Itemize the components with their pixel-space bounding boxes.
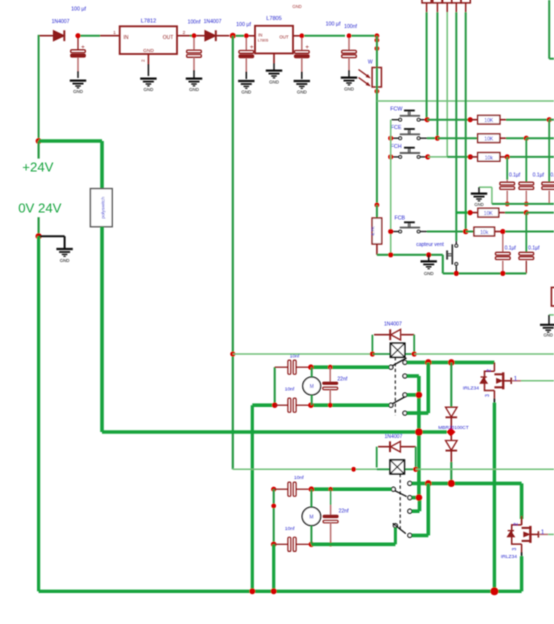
resistor R3 10k xyxy=(470,153,505,162)
node +12V junction xyxy=(230,22,252,39)
label +24V xyxy=(22,159,53,174)
svg-text:IN: IN xyxy=(124,35,129,41)
wire 0V rail down xyxy=(37,236,40,591)
svg-text:10k: 10k xyxy=(485,155,494,161)
wire FCH row xyxy=(428,156,471,158)
node K1 aux column xyxy=(416,392,423,399)
wire K2 feed to edge xyxy=(416,468,554,470)
svg-text:0.1µf: 0.1µf xyxy=(550,173,554,179)
ground GND4 xyxy=(238,81,254,95)
diode D6 1N4007 flyback xyxy=(377,434,416,468)
wire K1 coil feed xyxy=(233,353,373,355)
transistor Q2 IRLZ34 xyxy=(501,516,548,560)
node K2 aux xyxy=(416,494,423,501)
wire motor2 left branch xyxy=(271,489,276,544)
wire +24V stub xyxy=(37,141,39,159)
node K1 feed tap xyxy=(230,351,235,356)
node C7 bottom xyxy=(524,202,529,207)
svg-text:100nf: 100nf xyxy=(344,24,357,30)
capacitor C13 22nf xyxy=(323,365,348,408)
motor M2 xyxy=(302,489,320,544)
svg-text:22nf: 22nf xyxy=(339,509,349,515)
svg-text:+24V: +24V xyxy=(22,159,53,174)
resistor R1 10K xyxy=(470,115,506,124)
svg-text:2: 2 xyxy=(140,59,145,62)
capacitor C3 100uf xyxy=(239,38,254,79)
capacitor C4 100uf xyxy=(294,38,309,79)
wire AC input corner xyxy=(39,35,54,141)
regulator U1 L7812 xyxy=(120,19,177,55)
svg-text:IRLZ34: IRLZ34 xyxy=(463,386,479,392)
svg-text:GND: GND xyxy=(297,90,307,95)
svg-text:L7805: L7805 xyxy=(266,16,282,22)
svg-text:IN: IN xyxy=(258,32,262,37)
wire R1 to edge xyxy=(506,117,554,122)
wire K1 throw A row xyxy=(407,361,495,365)
ground GND1 xyxy=(70,81,86,95)
capacitor C14 10nf xyxy=(271,475,309,496)
wire Q2 drain column xyxy=(520,483,524,519)
ground GND8 xyxy=(421,255,437,276)
node junctions at W column xyxy=(375,33,380,51)
svg-text:2: 2 xyxy=(486,369,492,372)
node K1 coil right xyxy=(412,351,417,356)
node above R6 xyxy=(375,203,380,208)
node junction at C2 xyxy=(192,33,197,38)
wire J1 pin2 column xyxy=(436,12,438,138)
svg-text:GND: GND xyxy=(474,202,483,207)
node throw A col1 xyxy=(425,359,432,366)
svg-text:1N4007: 1N4007 xyxy=(384,434,402,440)
node R5 right xyxy=(500,229,505,234)
wire MBR bottom xyxy=(450,462,452,483)
wire motor1 row A xyxy=(311,365,389,369)
ground GND5 xyxy=(266,71,282,85)
relay K2 contacts xyxy=(391,474,411,538)
svg-text:L7805: L7805 xyxy=(258,39,269,43)
svg-text:FCE: FCE xyxy=(391,125,402,131)
wire bottom 0V rail xyxy=(39,590,522,593)
svg-text:10nf: 10nf xyxy=(285,526,295,532)
svg-text:+: + xyxy=(305,44,309,51)
wire K2 coil pins xyxy=(377,468,416,470)
connector fragment right edge xyxy=(551,287,554,306)
node rail relay column xyxy=(415,428,423,436)
wire D1 to U1 xyxy=(80,30,119,36)
svg-text:10K: 10K xyxy=(484,211,494,217)
svg-text:FCB: FCB xyxy=(394,216,405,222)
wire cap bank rail xyxy=(492,203,554,205)
wire K1 coil pins xyxy=(372,353,414,355)
svg-text:M: M xyxy=(309,515,313,521)
svg-text:GND: GND xyxy=(73,89,83,94)
svg-text:IRLZ34: IRLZ34 xyxy=(501,554,517,560)
diode D3 1N4007 flyback xyxy=(372,322,414,352)
capacitor C10 0.1uf xyxy=(519,213,540,274)
wire to U2 xyxy=(236,33,255,38)
svg-text:0.1µf: 0.1µf xyxy=(528,246,540,252)
ground GND9 xyxy=(471,187,492,207)
svg-text:polyswitch: polyswitch xyxy=(101,196,107,218)
capacitor C11 10nf xyxy=(275,353,309,374)
node motor1 B junction xyxy=(308,402,314,408)
wire W column upper xyxy=(376,36,378,68)
svg-text:10k: 10k xyxy=(480,230,489,236)
node K2 MBR bottom xyxy=(448,480,455,487)
wire U2 GND pin xyxy=(273,53,275,70)
ground GND2 xyxy=(140,79,156,93)
node rail FC column xyxy=(388,252,393,257)
switch FCW xyxy=(390,107,427,121)
svg-text:GND: GND xyxy=(424,271,434,276)
resistor R5 10k xyxy=(466,227,501,236)
label 0V 24V xyxy=(18,200,61,215)
svg-text:FCW: FCW xyxy=(390,107,402,113)
svg-text:2: 2 xyxy=(183,30,186,36)
svg-text:+: + xyxy=(81,44,85,51)
capacitor C16 22nf xyxy=(323,487,349,547)
capacitor C1 100uf xyxy=(71,38,86,78)
node rail capteur xyxy=(454,271,459,276)
node rail C9 xyxy=(500,271,505,276)
svg-text:100 µf: 100 µf xyxy=(236,22,251,28)
svg-text:MBR20100CT: MBR20100CT xyxy=(438,425,468,431)
fuse F1 polyswitch xyxy=(90,189,112,227)
resistor R6 4.7K xyxy=(371,205,382,255)
svg-text:GND: GND xyxy=(189,87,199,92)
svg-text:10K: 10K xyxy=(484,118,494,124)
wire J1 pin4 column xyxy=(455,12,457,241)
wire K1 T1b-T2a column xyxy=(407,376,419,498)
relay K2 coil xyxy=(390,460,404,474)
wire K1 feed to edge xyxy=(414,353,554,355)
wire motor1 row B xyxy=(252,403,389,407)
wire K2 T1b-T2a link xyxy=(412,498,420,512)
node FCE left xyxy=(388,136,393,141)
svg-text:GND: GND xyxy=(144,87,154,92)
wire motor2 row B xyxy=(311,528,395,545)
label MBR20100CT xyxy=(438,425,468,431)
wire J1 pin5 column xyxy=(465,12,467,231)
wire W column lower xyxy=(376,87,378,205)
capacitor C8 0.1uf xyxy=(542,120,554,204)
node K2 feed dot xyxy=(351,467,356,472)
wire K2 throw row xyxy=(412,482,522,486)
wire switch common column xyxy=(390,120,392,255)
node FCH right xyxy=(425,154,430,159)
svg-text:capteur vent: capteur vent xyxy=(416,242,444,248)
capacitor C9 0.1uf xyxy=(495,234,516,271)
wire main 24V rail xyxy=(102,430,447,434)
ground GND6 xyxy=(294,81,310,95)
wire +24V center column xyxy=(232,36,234,469)
svg-text:0.1µf: 0.1µf xyxy=(505,246,517,252)
wire R4 to edge xyxy=(505,210,554,215)
svg-text:1N4007: 1N4007 xyxy=(204,19,222,25)
node junction at C5 xyxy=(344,24,357,38)
ground GND3 xyxy=(186,79,202,93)
capacitor C7 0.1uf xyxy=(519,138,545,201)
wire J1 pin1 column xyxy=(426,12,429,119)
wire +24V feed xyxy=(39,141,102,189)
wire motor1 B to bottom xyxy=(251,405,254,591)
wire motor1 left branch xyxy=(274,367,276,405)
wire motor2 row A xyxy=(311,487,391,491)
wire 0V stub xyxy=(37,217,39,236)
resistor R2 10K xyxy=(478,134,506,143)
wire U1 out xyxy=(177,30,192,36)
node below W xyxy=(375,89,380,94)
switch FCB xyxy=(392,216,428,233)
wire +5V to W column xyxy=(351,35,377,37)
wire Q1 source to bottom xyxy=(493,403,496,592)
node row5 junction xyxy=(463,229,469,235)
capacitor C12 10nf xyxy=(275,386,309,412)
wire FCW row xyxy=(427,119,470,121)
wire U1 GND pin xyxy=(140,54,148,76)
node C6 bottom xyxy=(505,202,510,207)
wire MBR top xyxy=(450,362,452,407)
node 0V junction xyxy=(36,233,42,239)
wire K2 T2b column xyxy=(412,483,429,535)
relay K1 coil xyxy=(390,343,404,357)
transistor Q1 IRLZ34 xyxy=(463,362,521,402)
svg-text:10nf: 10nf xyxy=(290,353,300,359)
svg-text:0V 24V: 0V 24V xyxy=(18,200,61,215)
svg-text:OUT: OUT xyxy=(279,34,289,39)
node K2 throw col xyxy=(425,480,432,487)
wire U2 out xyxy=(293,21,345,38)
connector J1 pins xyxy=(422,0,470,12)
diode D4 MBR20100CT xyxy=(446,407,458,428)
label GND top xyxy=(292,4,301,9)
node +24V junction xyxy=(36,138,42,144)
svg-text:22nf: 22nf xyxy=(337,377,347,383)
capacitor C15 10nf xyxy=(274,526,309,552)
wire motor2 B to bottom xyxy=(272,544,275,591)
node FCH left xyxy=(388,154,393,159)
wire sensor ground rail xyxy=(377,255,526,274)
node throw A MBR xyxy=(448,359,455,366)
svg-text:100 µf: 100 µf xyxy=(71,7,86,13)
wire FCB row xyxy=(427,231,466,233)
svg-text:GND: GND xyxy=(292,4,301,9)
node rail GND tap xyxy=(426,252,431,257)
capacitor C2 100nf xyxy=(187,19,202,77)
svg-text:1N4007: 1N4007 xyxy=(52,19,70,25)
node bottom motor1 xyxy=(249,588,255,594)
node FCB left xyxy=(388,229,393,234)
wire R2 to edge xyxy=(506,136,554,141)
diode D5 MBR20100CT xyxy=(446,436,458,463)
node junction at C1 xyxy=(75,33,80,38)
switch FCE xyxy=(391,125,427,139)
node motor2 B left xyxy=(271,542,277,548)
svg-text:L7812: L7812 xyxy=(141,19,157,25)
svg-text:W: W xyxy=(368,60,373,66)
wire polyswitch down xyxy=(100,227,104,432)
node R3 left xyxy=(468,154,473,159)
capacitor C5 100nf xyxy=(342,38,357,77)
capacitor C6 0.1uf xyxy=(500,157,521,202)
svg-text:10nf: 10nf xyxy=(294,475,304,481)
svg-text:100 µf: 100 µf xyxy=(326,21,341,27)
svg-text:+: + xyxy=(250,44,254,51)
svg-text:GND: GND xyxy=(241,90,251,95)
svg-text:GND: GND xyxy=(344,86,354,91)
svg-text:1: 1 xyxy=(113,30,116,36)
wire Q2 source to rail xyxy=(520,556,523,591)
wire R5 to edge xyxy=(505,231,554,233)
svg-text:1N4007: 1N4007 xyxy=(384,322,402,328)
svg-text:0.1µf: 0.1µf xyxy=(509,173,521,179)
wire Q1 gate to edge xyxy=(521,380,554,382)
svg-text:OUT: OUT xyxy=(163,35,174,41)
svg-text:10K: 10K xyxy=(484,137,494,143)
relay K1 contacts xyxy=(389,357,407,415)
svg-text:10nf: 10nf xyxy=(285,386,295,392)
svg-text:100nf: 100nf xyxy=(188,19,201,25)
svg-text:3: 3 xyxy=(512,548,518,551)
svg-text:FCH: FCH xyxy=(391,144,402,150)
node motor1 A junction xyxy=(308,364,314,370)
switch capteur vent xyxy=(416,241,457,271)
wire FCE row xyxy=(427,136,478,141)
switch FCH xyxy=(391,144,427,158)
ground GND7 xyxy=(341,78,357,92)
node motor1 B left xyxy=(272,402,278,408)
ground GND11 top right xyxy=(540,315,554,338)
node R1 left xyxy=(468,117,473,122)
wire Q2 gate to edge xyxy=(548,533,554,535)
regulator U2 L7805 xyxy=(255,16,293,53)
node motor2 B junction xyxy=(309,542,315,548)
photoresistor W xyxy=(359,60,382,87)
svg-text:4.7K: 4.7K xyxy=(371,225,376,235)
svg-text:2: 2 xyxy=(514,523,520,526)
svg-text:GND: GND xyxy=(544,333,553,338)
wire sensor supply row xyxy=(377,100,554,102)
wire 0V gnd tie xyxy=(39,236,65,248)
svg-text:M: M xyxy=(310,384,314,390)
svg-text:3: 3 xyxy=(485,394,491,397)
svg-text:GND: GND xyxy=(269,79,279,84)
svg-text:0.1µf: 0.1µf xyxy=(533,173,545,179)
node K1 coil left xyxy=(370,351,375,356)
wire K1 T1a-T2b column xyxy=(407,362,428,413)
node MBR mid xyxy=(447,428,456,437)
svg-text:GND: GND xyxy=(60,258,70,263)
wire top right stub xyxy=(549,0,554,59)
node motor2 A junction xyxy=(309,486,315,492)
node bottom motor2 xyxy=(271,588,277,594)
svg-text:GND: GND xyxy=(143,48,154,54)
diode D2 1N4007 xyxy=(196,19,229,41)
wire J1 pin3 column xyxy=(446,12,448,157)
node FCW right xyxy=(425,117,430,122)
node bottom Q1 source xyxy=(490,587,498,595)
resistor R4 10K xyxy=(456,208,505,217)
motor M1 xyxy=(303,367,321,405)
ground GND10 xyxy=(56,249,72,263)
node K2 coil right xyxy=(413,467,418,472)
diode D1 1N4007 xyxy=(52,7,87,42)
node R3 right xyxy=(505,154,510,159)
wire K2 coil feed corner xyxy=(233,467,377,470)
wire R3 to edge xyxy=(510,156,554,158)
